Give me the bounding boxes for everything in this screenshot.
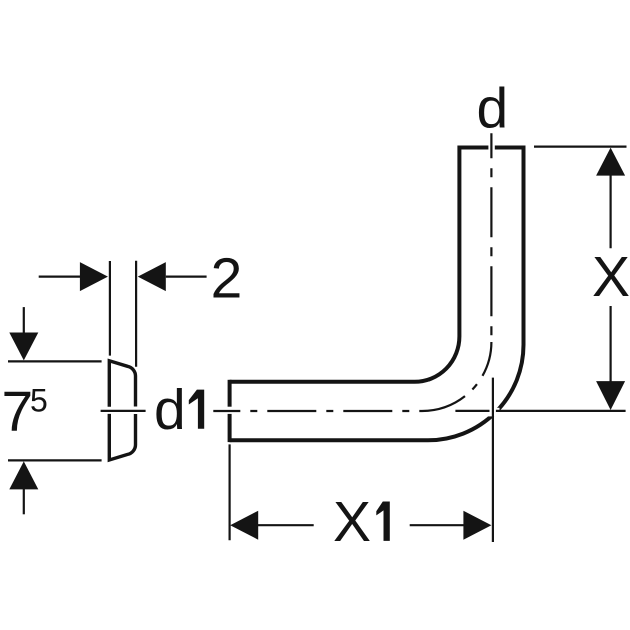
dimension X: bottom extension line (left segment) <box>455 410 489 412</box>
dimension 2: right dimension line <box>166 276 207 278</box>
dimension 7.5: bottom extension line <box>8 459 102 461</box>
svg-text:d: d <box>154 378 186 442</box>
dimension 2: right arrowhead <box>138 262 166 291</box>
dimension X: bottom arrowhead (pointing down) <box>596 381 625 410</box>
dimension X: top arrowhead (pointing up) <box>596 148 625 176</box>
dimension X1: right arrowhead (pointing right) <box>463 511 491 540</box>
dimension 7.5: top arrow stem <box>23 307 25 333</box>
main centerline dash-dot (vertical pipe axis) <box>490 133 492 342</box>
pipe left end line (upper segment) <box>228 380 232 407</box>
pipe bend outer contour (top edge right part, right edge of vertical pipe, outer radius, bottom edge of horizontal pipe) <box>230 148 524 441</box>
dimension 7.5: top arrowhead (pointing down) <box>9 333 38 361</box>
dimension X1: left arrowhead (pointing left) <box>230 511 258 540</box>
svg-text:5: 5 <box>30 383 48 419</box>
dimension 2: left extension line <box>109 261 111 356</box>
svg-text:X: X <box>333 490 371 554</box>
gasket cap profile upper part (left edge above axis, sloped top, corner radius, right edge above axis) <box>109 361 135 407</box>
dimension 2: left dimension line <box>39 276 81 278</box>
pipe left end line (lower segment) <box>228 414 232 442</box>
cap centerline dash <box>101 410 146 412</box>
pipe bend inner contour (top edge of horizontal pipe, inner radius, left edge of vertical pipe, top edge left part) <box>230 148 489 382</box>
dimension X1: dimension line left segment <box>258 524 314 526</box>
svg-text:7: 7 <box>2 380 34 444</box>
svg-text:2: 2 <box>211 247 243 311</box>
dimension X: bottom extension line (right segment) <box>496 410 626 412</box>
dimension X: dimension line lower segment <box>609 306 611 382</box>
dimension X1: dimension line right segment <box>410 524 464 526</box>
dimension 2: left arrowhead <box>80 262 108 291</box>
dimension X1: left extension line (below pipe end) <box>229 444 231 540</box>
dimension 7.5: bottom arrow stem <box>23 489 25 514</box>
dimension 7.5: top extension line <box>8 360 102 362</box>
label d1 (digit 1, drawn as narrow Helvetica-style glyph) <box>189 390 204 429</box>
dimension X: dimension line upper segment <box>609 175 611 248</box>
dimension 7.5: bottom arrowhead (pointing up) <box>9 461 38 489</box>
svg-text:d: d <box>477 76 509 140</box>
gasket cap profile lower part (right edge below axis, corner radius, sloped bottom, left edge below axis) <box>109 414 135 460</box>
dimension 2: right extension line <box>135 261 137 367</box>
white gap in outer radius where extension lines cross <box>486 408 500 417</box>
svg-text:X: X <box>592 245 630 309</box>
dimension X1: right extension line (below bend) <box>492 378 494 542</box>
dimension X1: label (digit 1, drawn as narrow Helvetica-style glyph) <box>376 502 390 541</box>
dimension X: top extension line <box>534 146 627 148</box>
main centerline dash-dot (horizontal pipe axis and bend arc) <box>213 342 491 411</box>
